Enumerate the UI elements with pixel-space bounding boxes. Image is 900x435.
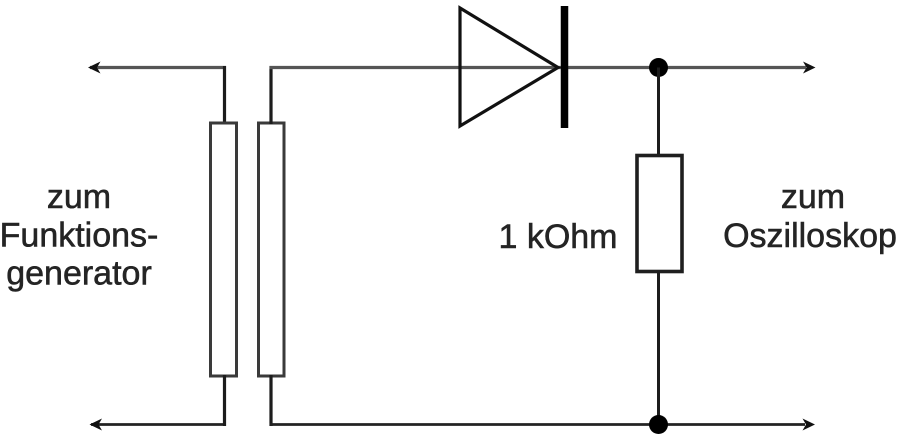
wire bottom-left vertical from primary coil xyxy=(223,375,226,426)
node junction top xyxy=(649,58,668,77)
svg-text:zum: zum xyxy=(781,178,845,216)
wire top-left vertical to primary coil xyxy=(223,66,226,124)
diode D1 cathode bar xyxy=(561,6,569,128)
node junction bottom xyxy=(649,415,668,434)
wire bottom-left horizontal xyxy=(91,423,226,426)
svg-text:zum: zum xyxy=(47,178,111,216)
wire top-left horizontal xyxy=(90,66,226,69)
transformer primary coil xyxy=(211,123,237,376)
svg-text:1 kOhm: 1 kOhm xyxy=(498,218,617,256)
wire bottom horizontal (secondary to output) xyxy=(270,423,806,426)
resistor R1 1 kOhm xyxy=(637,156,682,272)
wire bottom-right vertical from secondary coil xyxy=(269,375,272,426)
wire from resistor to bottom node xyxy=(657,271,660,425)
transformer secondary coil xyxy=(259,123,285,376)
arrow bottom-right xyxy=(803,419,816,431)
arrow top-left xyxy=(88,62,101,74)
diode D1 triangle (anode) xyxy=(460,8,558,126)
svg-text:Funktions-: Funktions- xyxy=(0,217,158,255)
wire from top node to resistor xyxy=(657,68,660,157)
svg-text:Oszilloskop: Oszilloskop xyxy=(723,217,897,255)
wire top horizontal (secondary to output) xyxy=(270,66,807,69)
svg-text:generator: generator xyxy=(6,255,152,293)
arrow top-right xyxy=(803,62,816,74)
wire top-right vertical from secondary coil xyxy=(269,66,272,124)
arrow bottom-left xyxy=(90,419,103,431)
